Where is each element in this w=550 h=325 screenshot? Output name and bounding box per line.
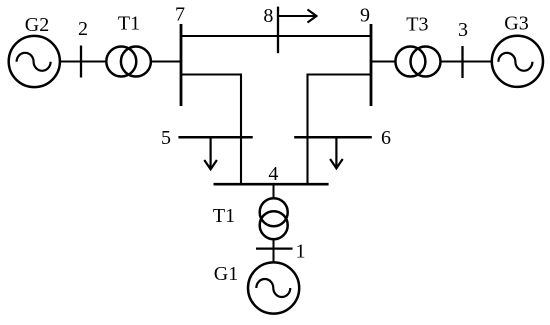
wire G2 to transformer T1 — [60, 61, 107, 63]
bus 5 bar — [178, 136, 252, 139]
bus 6 bar — [294, 136, 372, 139]
transformer T1 (bottom, G1 step-up) — [260, 198, 288, 239]
svg-text:3: 3 — [458, 19, 468, 41]
svg-text:T3: T3 — [406, 14, 428, 36]
wire transformer T1 to generator G1 — [273, 239, 275, 262]
generator G3 — [492, 36, 543, 87]
transformer T3 — [395, 47, 440, 77]
bus 4 bar — [214, 183, 329, 186]
svg-text:6: 6 — [381, 127, 391, 149]
wire transformer T1 to bus 7 — [151, 61, 181, 63]
line 7-5 (corner branch) — [181, 75, 241, 185]
svg-text:5: 5 — [161, 127, 171, 149]
wire bus 9 to transformer T3 — [371, 61, 395, 63]
svg-text:1: 1 — [296, 241, 306, 263]
svg-text:7: 7 — [175, 4, 185, 26]
bus tick 3 — [461, 46, 463, 78]
svg-text:G1: G1 — [214, 263, 238, 285]
svg-text:2: 2 — [78, 18, 88, 40]
transformer T1 (left) — [106, 47, 151, 77]
svg-text:9: 9 — [360, 5, 370, 27]
line 9-6 (corner branch) — [308, 75, 372, 185]
svg-text:T1: T1 — [213, 205, 235, 227]
bus tick 1 — [256, 247, 293, 249]
svg-text:G3: G3 — [504, 13, 528, 35]
wire bus 4 to transformer T1 — [273, 184, 275, 199]
bus tick 8 — [277, 7, 279, 54]
wire transformer T3 to generator G3 — [441, 61, 492, 63]
load arrow at bus 5 — [204, 137, 217, 169]
line 7-8-9 — [181, 35, 371, 37]
arrow at bus 8 (load arrow pointing right) — [278, 10, 317, 23]
svg-text:G2: G2 — [25, 14, 49, 36]
generator G2 — [9, 36, 60, 87]
svg-text:4: 4 — [268, 163, 278, 185]
svg-text:T1: T1 — [118, 13, 140, 35]
bus tick 2 — [80, 46, 82, 78]
bus 9 — [370, 24, 373, 106]
load arrow at bus 6 — [330, 137, 343, 168]
bus 7 — [180, 24, 183, 106]
svg-text:8: 8 — [263, 5, 273, 27]
generator G1 — [248, 262, 299, 313]
